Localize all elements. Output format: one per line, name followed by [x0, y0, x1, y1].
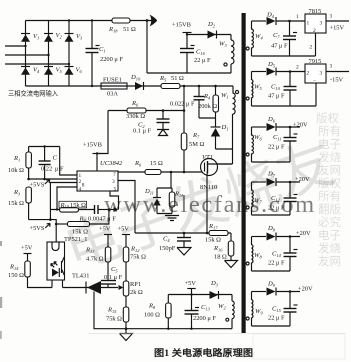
wire AC input line 3 — [5, 63, 69, 65]
svg-text:15k Ω: 15k Ω — [8, 200, 24, 207]
diode D5 — [267, 61, 277, 76]
svg-text:100 Ω: 100 Ω — [144, 312, 160, 319]
svg-text:200k Ω: 200k Ω — [198, 103, 217, 110]
svg-text:版权所有电子发烧友网版权所有翻版必究电子发烧友网: 版权所有电子发烧友网版权所有翻版必究电子发烧友网 — [316, 111, 341, 268]
wire VCC drop to pin7 — [97, 111, 108, 154]
regulator 7815 — [305, 8, 326, 34]
winding W7 — [246, 182, 266, 215]
wire pin2 feedback row — [29, 178, 77, 180]
diode D1 — [211, 118, 229, 149]
svg-text:2k Ω: 2k Ω — [130, 289, 143, 296]
wire -15V output — [326, 71, 349, 73]
wire cell3 bottom — [252, 161, 291, 163]
ground gate clamp — [165, 216, 179, 221]
capacitor C14 22uF — [268, 237, 298, 272]
svg-text:0.1 μ F: 0.1 μ F — [133, 128, 152, 135]
node +5V right — [118, 226, 131, 248]
wire gate clamp branch — [157, 172, 172, 214]
svg-text:22 μ F: 22 μ F — [268, 315, 285, 322]
resistor R12 75kΩ — [123, 246, 146, 282]
resistor R13 4.7kΩ — [85, 247, 111, 281]
svg-text:+5VS: +5VS — [30, 225, 45, 232]
wire cell5 rail +20V — [276, 236, 300, 238]
resistor R7 5MΩ — [181, 132, 204, 172]
svg-text:UC3842: UC3842 — [100, 160, 123, 167]
ground C4 — [177, 248, 191, 256]
wire pin3 sense — [118, 181, 135, 234]
winding W9 — [246, 292, 266, 327]
wire +5VS feed — [29, 220, 57, 242]
scan artifact faint line — [88, 333, 345, 335]
fuse FUSE1 0.3A — [101, 77, 127, 98]
capacitor C16 — [180, 46, 211, 74]
svg-text:图1 关电源电路原理图: 图1 关电源电路原理图 — [154, 347, 253, 358]
capacitor C13 2200uF — [185, 295, 217, 330]
diode V4 — [21, 67, 40, 75]
svg-text:1: 1 — [296, 14, 299, 20]
capacitor C9 0.0047uF — [79, 205, 117, 223]
node gate junctions — [170, 171, 173, 174]
svg-text:+15V: +15V — [330, 25, 345, 32]
capacitor C7 47uF — [271, 21, 297, 56]
wire bridge top rail — [26, 20, 156, 22]
wire pin5 stub — [110, 191, 119, 210]
shunt-reg TL431 — [63, 273, 119, 329]
diode V1 — [21, 33, 39, 42]
wire pin1 row — [60, 147, 77, 176]
svg-text:75k Ω: 75k Ω — [106, 316, 122, 323]
diode D6 — [267, 116, 277, 131]
svg-text:18 Ω: 18 Ω — [214, 254, 227, 261]
capacitor C10 47uF — [268, 72, 297, 107]
svg-text:7: 7 — [113, 172, 116, 178]
svg-text:3: 3 — [320, 21, 323, 27]
resistor R10 15kΩ timing — [50, 201, 94, 212]
wire bridge column 1 — [25, 21, 27, 87]
diode V6 — [65, 67, 83, 75]
wire D2 row — [187, 34, 231, 36]
node R15 bottom — [125, 327, 128, 330]
wire cell1 bottom — [252, 33, 316, 56]
svg-text:15k Ω: 15k Ω — [70, 202, 86, 209]
svg-text:+5V: +5V — [185, 280, 197, 287]
svg-text:2: 2 — [296, 65, 299, 71]
capacitor C3 0.022uF snubber — [170, 86, 205, 118]
diode D8 — [267, 225, 277, 241]
svg-text:-15V: -15V — [330, 77, 344, 84]
wire source column — [206, 175, 208, 233]
svg-text:22 μ F: 22 μ F — [194, 57, 211, 64]
node +5V R14 — [21, 245, 33, 262]
ground R16 — [225, 261, 238, 268]
node arrow to primary — [150, 15, 158, 27]
svg-text:C: C — [53, 155, 58, 162]
wire AC input line 1 — [5, 45, 26, 47]
resistor R14 150Ω — [8, 261, 52, 288]
wire cell3 rail +20V — [276, 126, 300, 128]
svg-text:1: 1 — [307, 21, 310, 27]
resistor RB 15kΩ — [55, 210, 109, 236]
node top rail junctions — [68, 19, 70, 21]
resistor R11 — [169, 188, 183, 207]
diode D9 — [267, 281, 277, 296]
capacitor C 0.22uF — [39, 145, 64, 179]
wire cell2 top rail — [276, 71, 305, 73]
wire +15V output — [326, 20, 349, 22]
capacitor C4 150pF — [159, 233, 191, 252]
svg-text:+20V: +20V — [298, 286, 313, 293]
winding W6 — [246, 127, 266, 162]
svg-text:47 μ F: 47 μ F — [268, 93, 285, 100]
transistor VT1 8N110 MOSFET — [200, 154, 232, 191]
winding W3 — [219, 35, 234, 74]
wire cell5 bottom — [252, 270, 291, 272]
resistor R4 200kΩ snubber — [198, 86, 219, 118]
diode D10 — [130, 74, 144, 90]
resistor R16 18Ω — [213, 233, 234, 261]
wire AC input line 2 — [5, 54, 49, 56]
capacitor C11 22uF — [268, 127, 298, 162]
svg-text:150 Ω: 150 Ω — [8, 272, 24, 279]
regulator 7915 — [305, 58, 326, 84]
wire cell2 bottom — [252, 83, 317, 106]
wire drain link — [217, 163, 232, 165]
svg-text:47 μ F: 47 μ F — [271, 43, 288, 50]
node +5V left — [99, 226, 112, 248]
diode D4 — [266, 12, 276, 26]
svg-text:+5VS: +5VS — [30, 182, 45, 189]
svg-text:VT1: VT1 — [202, 154, 213, 161]
node +15VB supply tap — [172, 22, 192, 49]
svg-text:+15VB: +15VB — [172, 22, 191, 29]
svg-text:4: 4 — [79, 187, 82, 193]
wire arrow drop — [146, 21, 148, 74]
resistor R17 15kΩ — [205, 223, 228, 244]
node +15VB label at pin7 — [83, 142, 102, 172]
wire main bottom rail — [94, 328, 233, 330]
diode D3 — [210, 280, 219, 299]
svg-text:51 Ω: 51 Ω — [171, 75, 184, 82]
resistor R15 75kΩ — [106, 307, 129, 329]
scan artifact edge marks — [0, 241, 2, 246]
svg-text:+20V: +20V — [293, 122, 308, 129]
wire bridge column 2 — [48, 21, 50, 87]
svg-text:22 μ F: 22 μ F — [268, 260, 285, 267]
wire cell1 top rail — [276, 20, 305, 22]
wire HV drop to R6 row and R7 — [183, 86, 185, 133]
diode V5 — [44, 67, 63, 75]
node +5V output — [185, 280, 197, 296]
wire vref rail — [29, 146, 60, 148]
svg-text:3: 3 — [330, 14, 333, 20]
winding W4 — [246, 21, 266, 56]
diode D2 — [207, 21, 217, 39]
potentiometer RP1 2kΩ — [119, 281, 143, 307]
diode V2 — [44, 32, 63, 42]
svg-text:0.022 μ F: 0.022 μ F — [170, 101, 195, 108]
wire bridge bottom rail — [26, 85, 234, 87]
op-amp U1 UC3842 — [77, 160, 123, 193]
resistor R3 15kΩ — [8, 187, 31, 220]
svg-text:10k Ω: 10k Ω — [8, 167, 24, 174]
svg-text:7815: 7815 — [309, 8, 322, 15]
diode V3 — [65, 33, 84, 42]
resistor R6 330kΩ — [108, 100, 184, 120]
svg-text:+5V: +5V — [21, 245, 33, 252]
svg-text:3: 3 — [330, 64, 333, 70]
node arrow into pin5 drop — [114, 207, 119, 212]
resistor R18 51Ω — [108, 18, 136, 33]
ground C2 — [157, 130, 169, 136]
winding W8 — [246, 237, 266, 272]
wire cell4 bottom — [252, 214, 291, 216]
svg-text:03A: 03A — [107, 91, 118, 98]
ground bottom center — [120, 329, 133, 341]
node C1 bottom junction — [91, 85, 93, 87]
resistor R1 10kΩ — [8, 147, 31, 180]
wire pin4 drop — [57, 187, 77, 210]
capacitor C15 22uF — [268, 292, 298, 327]
wire cell6 bottom — [252, 325, 291, 327]
svg-text:www.elecfans.com: www.elecfans.com — [104, 191, 316, 218]
svg-text:0.1 μ F: 0.1 μ F — [104, 274, 123, 281]
svg-text:2: 2 — [307, 71, 310, 77]
svg-text:三相交流电网输入: 三相交流电网输入 — [8, 89, 59, 98]
svg-text:+15VB: +15VB — [83, 142, 102, 149]
svg-text:51 Ω: 51 Ω — [123, 26, 136, 33]
scan artifact faint box — [253, 334, 345, 359]
wire bridge column 3 — [68, 21, 70, 87]
wire sense row — [135, 232, 231, 234]
svg-text:7915: 7915 — [309, 58, 322, 65]
transformer core — [242, 13, 246, 333]
resistor R5 51Ω — [159, 75, 184, 89]
optocoupler TP521_1 — [47, 236, 87, 288]
svg-text:2: 2 — [310, 45, 313, 51]
svg-text:FUSE1: FUSE1 — [103, 77, 122, 84]
capacitor C12 22uF — [268, 182, 298, 215]
node snubber taps — [198, 85, 201, 88]
svg-text:3: 3 — [112, 179, 115, 185]
wire cell4 rail +20V — [276, 181, 300, 183]
svg-text:+20V: +20V — [296, 230, 311, 237]
svg-text:8: 8 — [82, 183, 85, 189]
winding W5 — [246, 72, 266, 107]
wire D1 to drain node — [216, 148, 233, 150]
wire clamp bottom — [147, 72, 231, 74]
wire snubber bottom — [199, 117, 216, 119]
winding W1 — [221, 86, 239, 164]
wire gate row pin6 to VT1 — [118, 171, 202, 173]
resistor R8 100Ω — [144, 295, 171, 330]
node rowB junction — [108, 208, 111, 211]
wire W2 cell top rail — [168, 294, 232, 296]
winding W2 — [218, 295, 234, 329]
diode D11 — [144, 188, 161, 206]
svg-text:2200 μ F: 2200 μ F — [100, 56, 123, 63]
capacitor C5 0.1uF — [101, 266, 123, 288]
svg-text:RP1: RP1 — [130, 281, 141, 288]
wire cell6 rail +20V — [276, 291, 300, 293]
capacitor C1 — [86, 21, 124, 87]
svg-text:0.22: 0.22 — [41, 166, 52, 173]
svg-text:2200 μ F: 2200 μ F — [193, 315, 216, 322]
node input taps — [24, 45, 26, 47]
svg-text:330k Ω: 330k Ω — [126, 113, 145, 120]
svg-text:15 Ω: 15 Ω — [150, 160, 163, 167]
svg-text:5M Ω: 5M Ω — [189, 141, 204, 148]
diode D7 — [267, 171, 277, 187]
wire pin8 drop — [50, 183, 77, 220]
resistor R6b 15Ω gate — [134, 160, 163, 175]
node +5VS upper — [30, 180, 50, 189]
svg-text:3: 3 — [320, 71, 323, 77]
node +5VS lower — [30, 223, 51, 232]
node HV junction — [183, 85, 186, 88]
capacitor C2 0.1uF — [133, 109, 185, 134]
